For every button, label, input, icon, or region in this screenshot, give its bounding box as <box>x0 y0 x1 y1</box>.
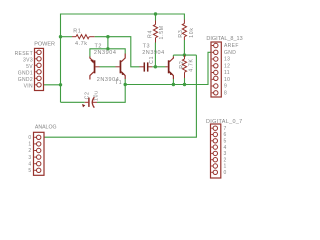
svg-text:10k: 10k <box>189 27 195 37</box>
svg-text:7: 7 <box>224 126 227 132</box>
wire R3 bottom <box>183 40 185 55</box>
svg-text:12: 12 <box>224 64 230 70</box>
resistor R2 <box>182 55 186 78</box>
svg-text:T3: T3 <box>143 44 151 50</box>
capacitor C1 leads <box>140 66 153 68</box>
node R2 gnd <box>183 83 186 86</box>
wire drop to cross link <box>107 37 109 49</box>
svg-text:GND: GND <box>224 50 236 56</box>
wire collector cross link <box>90 49 125 57</box>
resistor R3 <box>182 20 186 41</box>
svg-text:5: 5 <box>28 168 31 174</box>
node R1 left junction <box>59 35 62 38</box>
svg-text:VIN: VIN <box>24 84 33 90</box>
connector DIGITAL_0_7 <box>211 124 221 178</box>
wire down to C2 <box>97 85 125 103</box>
svg-text:1: 1 <box>28 142 31 148</box>
wire top rail <box>61 14 185 102</box>
svg-text:2: 2 <box>224 157 227 163</box>
svg-text:C2: C2 <box>85 91 91 99</box>
wire to analog sense <box>44 55 196 137</box>
wire R3 node horizontal <box>173 54 196 56</box>
svg-text:5: 5 <box>224 139 227 145</box>
svg-text:10: 10 <box>224 77 230 83</box>
svg-text:DIGITAL_8_13: DIGITAL_8_13 <box>206 36 242 42</box>
node T1 emitter <box>124 83 127 86</box>
svg-text:R4: R4 <box>148 30 154 38</box>
wire R4 top drop <box>155 14 157 21</box>
wire R1 right to C1 corner <box>95 37 140 67</box>
wire R2 bottom <box>184 78 186 85</box>
svg-text:T1: T1 <box>115 80 123 86</box>
svg-text:1.5M: 1.5M <box>159 25 165 39</box>
svg-text:6: 6 <box>224 132 227 138</box>
resistor R1 <box>72 35 95 39</box>
svg-text:5V: 5V <box>26 64 33 70</box>
svg-text:13: 13 <box>224 57 230 63</box>
node T3 emitter <box>172 83 175 86</box>
capacitor C2 <box>82 97 97 108</box>
svg-text:1: 1 <box>224 164 227 170</box>
capacitor C1 <box>144 62 147 71</box>
svg-text:11: 11 <box>224 70 230 76</box>
connector ANALOG <box>34 132 45 175</box>
pin labels ANALOG: 0 1 2 3 4 5 <box>28 135 31 174</box>
svg-text:RESET: RESET <box>15 51 33 57</box>
wire T1 emitter stub <box>124 79 126 85</box>
svg-text:R1: R1 <box>73 29 81 35</box>
svg-text:GND1: GND1 <box>18 71 33 77</box>
wire R1 left <box>61 36 73 38</box>
svg-text:R3: R3 <box>178 30 184 38</box>
svg-text:POWER: POWER <box>34 42 55 48</box>
node mid top <box>106 35 109 38</box>
transistor T3 <box>166 56 174 79</box>
node cross link <box>106 47 109 50</box>
svg-text:3: 3 <box>224 151 227 157</box>
svg-text:R2: R2 <box>179 61 185 69</box>
svg-text:2N3904: 2N3904 <box>94 50 117 56</box>
transistor T2 <box>90 57 120 80</box>
svg-text:GND2: GND2 <box>18 77 33 83</box>
pin labels DIGITAL_8_13: AREF GND 13 12 11 10 9 8 <box>224 43 239 96</box>
svg-text:2: 2 <box>28 148 31 154</box>
svg-text:3V3: 3V3 <box>23 58 33 64</box>
wire T3 collector up <box>172 55 174 56</box>
node R3 T3 <box>183 53 186 56</box>
svg-text:AREF: AREF <box>224 43 239 49</box>
svg-text:2N3904: 2N3904 <box>142 50 165 56</box>
pin labels POWER: RESET 3V3 5V GND1 GND2 VIN <box>15 51 34 90</box>
wire T1 T2 base link <box>100 66 116 68</box>
pin labels DIGITAL_0_7: 7 6 5 4 3 2 1 0 <box>224 126 227 176</box>
svg-text:8: 8 <box>224 91 227 97</box>
connector DIGITAL_8_13 <box>211 42 221 97</box>
wire VIN <box>44 84 61 86</box>
svg-text:4.7k: 4.7k <box>75 41 88 47</box>
connector POWER <box>35 48 44 90</box>
svg-text:4.7K: 4.7K <box>188 58 194 71</box>
svg-text:DIGITAL_0_7: DIGITAL_0_7 <box>206 119 243 125</box>
wire C1 right to T3 <box>152 66 165 68</box>
wire C2 left to power rail <box>61 101 85 103</box>
resistor R4 <box>153 21 157 43</box>
node C1 R4 T3 <box>154 65 157 68</box>
wire T3 emitter stub <box>172 79 174 85</box>
svg-text:4: 4 <box>224 145 227 151</box>
svg-text:10u: 10u <box>94 90 100 101</box>
node R4 top <box>154 12 157 15</box>
svg-text:ANALOG: ANALOG <box>35 124 57 130</box>
wire R4 bottom <box>154 43 156 67</box>
svg-text:0: 0 <box>224 170 227 176</box>
transistor T1 <box>120 54 126 80</box>
svg-text:T2: T2 <box>95 43 103 49</box>
node VIN <box>59 83 62 86</box>
svg-text:C1: C1 <box>149 56 155 64</box>
svg-text:0: 0 <box>28 135 31 141</box>
svg-text:3: 3 <box>28 155 31 161</box>
svg-text:9: 9 <box>224 84 227 90</box>
svg-text:4: 4 <box>28 161 31 167</box>
wire emitter rail <box>125 52 211 84</box>
